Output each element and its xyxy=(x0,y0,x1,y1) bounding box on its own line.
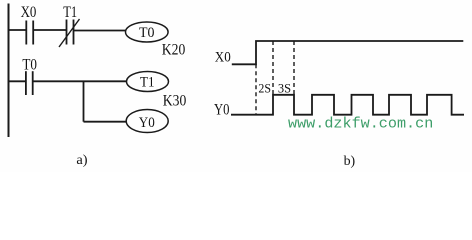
svg-text:T0: T0 xyxy=(22,57,37,74)
dashed timing line t2 xyxy=(293,41,295,95)
svg-text:X0: X0 xyxy=(21,4,37,21)
wire: T1 to coil T0 xyxy=(74,30,126,32)
svg-text:K30: K30 xyxy=(163,92,187,109)
wire rung1: rail to contact X0 xyxy=(8,29,26,31)
svg-text:T0: T0 xyxy=(139,25,155,41)
Y0 waveform xyxy=(231,95,464,115)
svg-text:a): a) xyxy=(76,152,87,167)
coil Y0 xyxy=(126,110,168,133)
contact T0 xyxy=(22,57,37,95)
wire: X0 to T1 xyxy=(33,29,66,31)
branch vertical wire at junction xyxy=(83,81,85,121)
svg-text:Y0: Y0 xyxy=(139,115,155,131)
NC contact T1 xyxy=(59,4,80,47)
svg-text:K20: K20 xyxy=(162,42,186,59)
X0 waveform xyxy=(232,41,463,64)
svg-text:X0: X0 xyxy=(215,50,231,66)
svg-text:2S: 2S xyxy=(258,80,271,95)
svg-text:3S: 3S xyxy=(278,80,291,95)
svg-text:www.dzkfw.com.cn: www.dzkfw.com.cn xyxy=(288,116,433,133)
svg-text:T1: T1 xyxy=(140,75,155,91)
coil T1 xyxy=(127,72,169,92)
dashed timing line t1 xyxy=(272,41,274,95)
svg-text:b): b) xyxy=(344,153,356,168)
dashed timing line t0 xyxy=(255,64,257,115)
svg-text:Y0: Y0 xyxy=(214,102,230,119)
wire rung2: rail to contact T0 xyxy=(8,80,26,82)
coil T0 xyxy=(126,22,169,42)
wire: branch to coil Y0 xyxy=(84,121,127,123)
contact X0 xyxy=(21,4,37,45)
left power rail xyxy=(8,4,10,138)
wire: T0 contact to coil T1 (through junction) xyxy=(33,80,127,82)
svg-text:T1: T1 xyxy=(63,4,77,21)
